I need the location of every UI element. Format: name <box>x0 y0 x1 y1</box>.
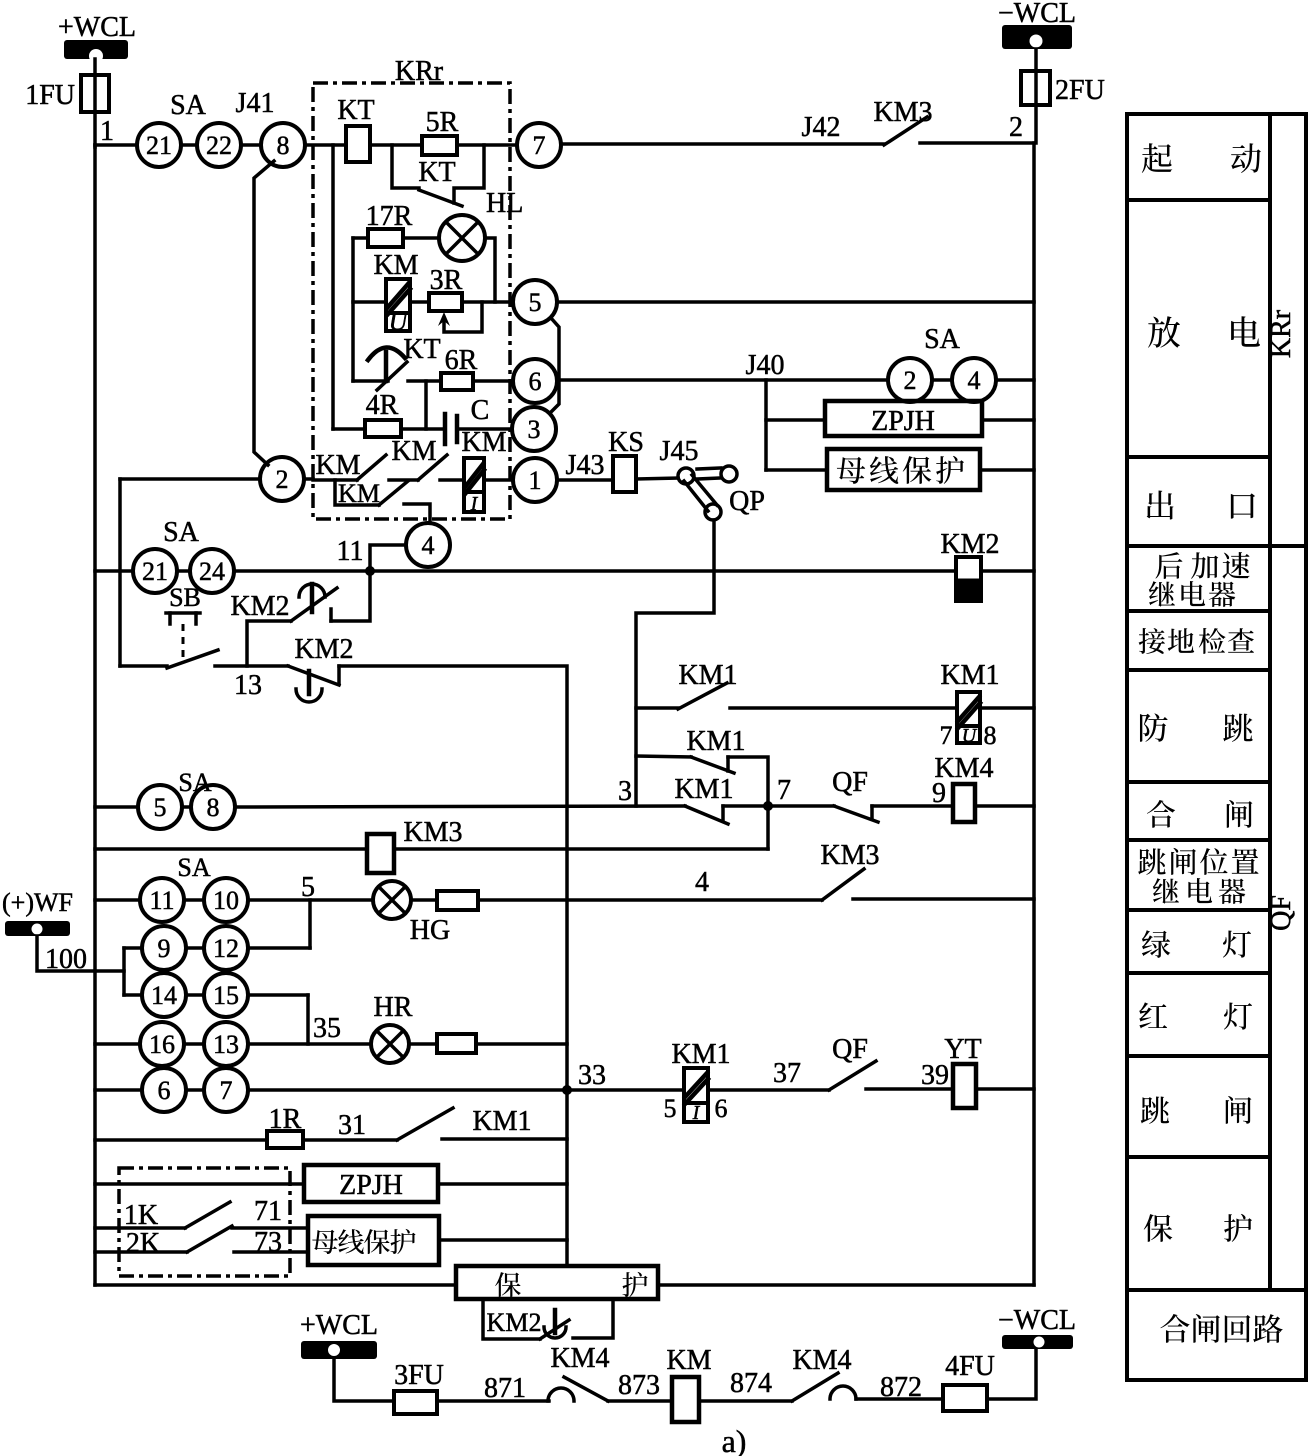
KM1 contact top (NO) <box>636 660 957 709</box>
KM4 contact left (NO) <box>548 1343 672 1401</box>
svg-text:QF: QF <box>832 767 868 798</box>
svg-text:872: 872 <box>880 1372 922 1403</box>
relay coil KM1 (U) pins 7-8 <box>940 660 1000 750</box>
svg-text:U: U <box>389 307 410 336</box>
wire row 5 <box>353 300 386 304</box>
svg-text:6: 6 <box>158 1076 171 1105</box>
svg-text:KM1: KM1 <box>472 1106 531 1137</box>
svg-text:10: 10 <box>213 886 239 915</box>
wire row 4R-C <box>333 427 365 431</box>
svg-text:I: I <box>470 493 479 515</box>
fuse 1FU <box>81 75 109 112</box>
svg-text:2FU: 2FU <box>1055 75 1105 106</box>
terminal circle 1 <box>513 458 557 502</box>
KM2 contact upper (anti-pump, with latch) <box>230 571 370 666</box>
wire rail-2 drop (circle2 to SB row) <box>118 479 122 666</box>
fuse 4FU <box>943 1385 987 1411</box>
resistor 1R <box>267 1131 303 1148</box>
table frame <box>1127 114 1306 1380</box>
SA contact circle 5 <box>138 785 182 829</box>
terminal circle 7 <box>517 123 561 167</box>
wire circle15 to HR branch <box>248 993 308 997</box>
svg-text:SA: SA <box>924 324 961 355</box>
KM1 contact (NO, protection start) <box>397 1106 567 1140</box>
bus row 11 wire <box>95 569 133 573</box>
wire J40 branch drop <box>764 380 768 470</box>
svg-text:35: 35 <box>313 1013 341 1044</box>
SA contact circle 21 <box>137 123 181 167</box>
wire <box>184 898 204 902</box>
wire <box>184 1042 204 1046</box>
svg-text:KM3: KM3 <box>873 97 932 128</box>
svg-text:11: 11 <box>337 536 364 567</box>
SA contact circle 2 <box>888 358 932 402</box>
relay coil KM1 (I) pins 5-6 <box>664 1039 731 1124</box>
svg-text:KM: KM <box>315 450 360 481</box>
wire to rail <box>980 468 1034 472</box>
bottom boundary wire <box>95 1283 456 1287</box>
resistor (HG row) <box>411 898 437 902</box>
wire to ZPJH <box>766 418 825 422</box>
svg-text:KM1: KM1 <box>940 660 999 691</box>
wire bracket to SA 9/14 <box>122 948 126 995</box>
svg-text:SA: SA <box>163 517 200 548</box>
KM4 contact right (NO) <box>792 1345 943 1401</box>
wire row 6 / J40 row <box>557 378 888 382</box>
resistor (HR row) <box>409 1042 437 1046</box>
resistor 6R <box>441 373 473 390</box>
wire circle8 drop to circle2 <box>254 161 274 465</box>
wire KS to QP <box>636 478 678 479</box>
terminal circle 3 <box>512 407 556 451</box>
svg-text:7: 7 <box>220 1076 233 1105</box>
svg-text:C: C <box>471 395 490 426</box>
SA contact circle 11 <box>140 878 184 922</box>
svg-text:2: 2 <box>276 465 289 494</box>
svg-text:KT: KT <box>403 334 440 365</box>
wire to HR lamp <box>248 1042 371 1046</box>
svg-text:8: 8 <box>277 131 290 160</box>
svg-text:15: 15 <box>213 981 239 1010</box>
svg-text:871: 871 <box>484 1373 526 1404</box>
wire green-lamp row <box>95 898 140 902</box>
svg-text:a): a) <box>722 1423 747 1456</box>
lamp HG (green) <box>373 881 450 946</box>
SA contact circle 6 <box>142 1068 186 1112</box>
svg-text:SB: SB <box>169 583 201 612</box>
inner left rail wire <box>331 145 335 429</box>
svg-text:J45: J45 <box>660 436 699 467</box>
wire +WCL to 1FU <box>93 59 97 147</box>
(+)WF terminal <box>2 888 124 975</box>
svg-text:ZPJH: ZPJH <box>339 1170 403 1201</box>
wire protection box to right rail <box>658 1283 1034 1287</box>
KM1 contact middle (NC) <box>636 726 768 849</box>
SA contact circle 9 <box>142 926 186 970</box>
wire to busbar-protection box <box>766 468 827 472</box>
svg-text:KM: KM <box>461 427 506 458</box>
svg-text:1FU: 1FU <box>25 80 75 111</box>
svg-text:SA: SA <box>170 90 207 121</box>
svg-text:KM: KM <box>373 250 418 281</box>
svg-text:QF: QF <box>832 1034 868 1065</box>
SA contact circle 16 <box>140 1022 184 1066</box>
push button SB <box>120 583 218 668</box>
svg-text:4FU: 4FU <box>945 1351 995 1382</box>
wire to node 33 <box>248 1088 684 1092</box>
svg-text:KT: KT <box>337 95 374 126</box>
SA contact circle 8 <box>191 785 235 829</box>
svg-text:KM3: KM3 <box>403 817 462 848</box>
svg-text:13: 13 <box>234 670 262 701</box>
lamp HR (red) <box>371 992 413 1063</box>
SA contact circle 22 <box>197 123 241 167</box>
1K contact row <box>95 1196 308 1231</box>
svg-text:7: 7 <box>777 775 791 806</box>
svg-text:4R: 4R <box>366 390 399 421</box>
svg-text:KM1: KM1 <box>671 1039 730 1070</box>
svg-text:(+)WF: (+)WF <box>2 888 73 917</box>
svg-text:873: 873 <box>618 1370 660 1401</box>
svg-text:7: 7 <box>940 721 953 750</box>
wire node 871 <box>437 1399 549 1403</box>
svg-text:37: 37 <box>773 1058 801 1089</box>
svg-text:J40: J40 <box>746 350 785 381</box>
resistor 4R <box>365 420 401 437</box>
svg-text:QP: QP <box>729 486 765 517</box>
svg-text:KM1: KM1 <box>674 774 733 805</box>
box ZPJH (upper) <box>825 401 982 436</box>
resistor 17R <box>353 236 368 240</box>
KM2 contact loop below protection box <box>483 1299 613 1339</box>
svg-text:J41: J41 <box>236 88 275 119</box>
svg-text:KM4: KM4 <box>550 1343 609 1374</box>
junction dot node 7 <box>763 801 773 811</box>
wire row 5 to right rail <box>557 300 1034 304</box>
terminal circle 5 <box>513 280 557 324</box>
relay coil KM (U voltage coil) <box>373 250 418 336</box>
svg-text:13: 13 <box>213 1030 239 1059</box>
wire terminal1 to KS <box>557 478 613 482</box>
svg-text:5: 5 <box>529 288 542 317</box>
svg-text:100: 100 <box>45 944 87 975</box>
svg-text:KM: KM <box>666 1345 711 1376</box>
wire SA8 to KM1 bottom contact <box>235 806 685 807</box>
svg-text:5R: 5R <box>426 107 459 138</box>
wire row 6 <box>353 379 388 383</box>
wire ZPJH lower row <box>95 1182 304 1186</box>
svg-text:2: 2 <box>904 366 917 395</box>
svg-text:5: 5 <box>301 872 315 903</box>
-WCL terminal (top) <box>998 0 1076 49</box>
svg-text:6: 6 <box>529 367 542 396</box>
wire <box>241 143 261 147</box>
svg-text:21: 21 <box>142 557 168 586</box>
wire 17R branch rail <box>351 238 355 381</box>
svg-text:874: 874 <box>730 1368 772 1399</box>
svg-text:+WCL: +WCL <box>58 12 136 43</box>
svg-text:J42: J42 <box>802 112 841 143</box>
svg-text:1: 1 <box>529 466 542 495</box>
svg-text:KM: KM <box>391 436 436 467</box>
wire node 37 <box>708 1088 829 1092</box>
wire -WCL to 2FU <box>1034 49 1038 143</box>
+WCL terminal (bottom) <box>300 1310 394 1401</box>
svg-text:2: 2 <box>1009 112 1023 143</box>
wire junction row6 to row C <box>424 381 428 429</box>
resistor 3R <box>429 293 462 311</box>
SA contact circle 4 <box>952 358 996 402</box>
box busbar protection (lower) <box>308 1216 439 1265</box>
KT contact (parallel with 5R) <box>392 145 484 206</box>
SA contact circle 15 <box>204 973 248 1017</box>
wire trip row (6-7) <box>95 1088 142 1092</box>
svg-text:8: 8 <box>984 721 997 750</box>
svg-text:1: 1 <box>100 116 114 147</box>
svg-text:J43: J43 <box>566 450 605 481</box>
wire to right rail <box>996 378 1034 382</box>
wire <box>177 569 190 573</box>
terminal circle 4 (below box) <box>406 523 450 567</box>
wire KM2 lower to mid rail <box>339 666 567 1266</box>
2K contact row <box>95 1226 308 1259</box>
svg-text:HL: HL <box>486 188 523 219</box>
svg-text:3FU: 3FU <box>394 1360 444 1391</box>
svg-text:2K: 2K <box>126 1228 160 1259</box>
svg-text:−WCL: −WCL <box>998 0 1076 29</box>
SA contact circle 13 <box>204 1022 248 1066</box>
left rail wire <box>93 145 97 1285</box>
wire row J42 <box>561 142 884 146</box>
svg-text:KM3: KM3 <box>820 840 879 871</box>
wire circle2 left <box>120 477 260 481</box>
SA contact circle 10 <box>204 878 248 922</box>
wire <box>186 1088 204 1092</box>
svg-text:22: 22 <box>206 131 232 160</box>
svg-text:YT: YT <box>944 1034 981 1065</box>
wire to node 2 <box>920 141 1034 145</box>
resistor 5R <box>422 136 457 155</box>
svg-text:17R: 17R <box>366 201 413 232</box>
wire 4FU to -WCL <box>987 1349 1036 1399</box>
wire KM2 coil to rail <box>981 569 1034 573</box>
wire circle4 to bus <box>370 545 406 571</box>
QF contact (closing row) <box>832 767 953 822</box>
svg-text:21: 21 <box>146 131 172 160</box>
svg-text:6: 6 <box>715 1094 728 1123</box>
wire HL right drop to row 5 <box>485 238 495 302</box>
table row labels <box>1266 309 1297 931</box>
trip coil YT <box>944 1034 981 1108</box>
SA contact circle 21 (bus) <box>133 549 177 593</box>
svg-text:KM2: KM2 <box>294 634 353 665</box>
svg-text:3: 3 <box>618 776 632 807</box>
svg-text:8: 8 <box>207 793 220 822</box>
bus wire to KM2 coil <box>234 569 956 573</box>
svg-text:33: 33 <box>578 1060 606 1091</box>
wire bracket terminal5 to terminal3 <box>550 318 559 413</box>
wire 17R to HL <box>403 236 439 240</box>
box busbar protection (upper) <box>827 449 980 490</box>
svg-text:9: 9 <box>158 934 171 963</box>
wire 1R row <box>95 1138 267 1142</box>
wire red-lamp row <box>95 1042 140 1046</box>
svg-text:KM1: KM1 <box>686 726 745 757</box>
relay coil KM (I current coil) <box>461 427 506 515</box>
timer coil KT <box>346 126 370 162</box>
SA contact circle 12 <box>204 926 248 970</box>
svg-text:KT: KT <box>418 157 455 188</box>
svg-text:SA: SA <box>177 853 210 882</box>
svg-text:HG: HG <box>410 915 450 946</box>
relay coil KM4 (closing) <box>932 753 994 822</box>
lower KM contact (to terminal 4) <box>335 479 430 523</box>
KT time-delay contact (umbrella) <box>368 334 441 390</box>
junction dot bus/terminal4 <box>365 566 375 576</box>
wire circle12 to junction <box>248 946 310 950</box>
svg-text:KS: KS <box>608 427 644 458</box>
3R adjust arrow bracket <box>438 302 482 332</box>
svg-text:4: 4 <box>422 531 435 560</box>
wire circle8 to KT coil and 5R <box>305 143 346 147</box>
svg-text:9: 9 <box>932 778 946 809</box>
fuse 2FU <box>1021 71 1050 105</box>
svg-text:4: 4 <box>695 867 709 898</box>
svg-text:31: 31 <box>338 1110 366 1141</box>
fuse 3FU <box>394 1391 437 1414</box>
svg-text:3: 3 <box>528 415 541 444</box>
relay coil KM2 <box>940 529 999 601</box>
svg-text:3R: 3R <box>430 265 463 296</box>
SA contact circle 7 <box>204 1068 248 1112</box>
relay coil KM3 <box>367 817 463 873</box>
svg-text:ZPJH: ZPJH <box>871 406 935 437</box>
svg-text:14: 14 <box>151 981 177 1010</box>
KM2 contact lower (with latch) <box>215 634 354 702</box>
wire KM3 coil row <box>95 847 367 851</box>
top row wire node1 to SA21 <box>95 143 137 147</box>
relay coil KM (closing contactor) <box>666 1345 711 1422</box>
svg-text:KRr: KRr <box>1266 309 1297 358</box>
wire to HG lamp <box>248 898 373 902</box>
dashed box (external protection contacts) <box>119 1168 290 1276</box>
wire KM3 coil to node7 stub <box>394 847 768 851</box>
relay KS <box>613 456 636 492</box>
svg-text:5: 5 <box>664 1094 677 1123</box>
SA contact circle 24 <box>190 549 234 593</box>
+WCL terminal (top) <box>58 12 136 63</box>
wire node 874 <box>699 1399 792 1403</box>
lamp HL <box>439 188 523 261</box>
svg-text:QF: QF <box>1266 895 1297 931</box>
terminal circle 6 <box>513 359 557 403</box>
svg-text:KM2: KM2 <box>487 1308 542 1337</box>
svg-text:I: I <box>692 1102 701 1124</box>
-WCL terminal (bottom) <box>998 1305 1076 1349</box>
wire circle2 to box <box>304 477 313 481</box>
svg-text:+WCL: +WCL <box>300 1310 378 1341</box>
wire <box>932 378 952 382</box>
svg-text:KM2: KM2 <box>230 591 289 622</box>
svg-text:KM1: KM1 <box>678 660 737 691</box>
svg-text:6R: 6R <box>445 345 478 376</box>
svg-text:7: 7 <box>533 131 546 160</box>
svg-text:71: 71 <box>254 1196 282 1227</box>
svg-text:1R: 1R <box>269 1104 302 1135</box>
SA contact circle 14 <box>142 973 186 1017</box>
junction dot node 33 <box>562 1085 572 1095</box>
KM3 contact (NO, green lamp row) <box>820 840 1034 900</box>
wire <box>186 946 204 950</box>
QF contact (trip row, NO) <box>829 1034 953 1090</box>
svg-text:4: 4 <box>968 366 981 395</box>
wire <box>182 805 191 809</box>
svg-text:73: 73 <box>254 1227 282 1258</box>
SA circle 2 (self-hold) <box>260 457 304 501</box>
wire ZPJH to rail <box>982 418 1034 422</box>
svg-text:24: 24 <box>199 557 225 586</box>
box ZPJH (lower) <box>304 1165 438 1202</box>
svg-text:16: 16 <box>149 1030 175 1059</box>
wire <box>181 143 197 147</box>
capacitor C <box>445 395 489 444</box>
svg-text:11: 11 <box>149 886 174 915</box>
svg-text:HR: HR <box>374 992 413 1023</box>
J41 circle 8 <box>261 123 305 167</box>
svg-text:U: U <box>962 725 978 747</box>
right rail wire <box>1032 143 1036 1285</box>
svg-text:5: 5 <box>154 793 167 822</box>
svg-text:−WCL: −WCL <box>998 1305 1076 1336</box>
disconnect switch QP <box>678 466 765 520</box>
wire row 3 (SA 5-8 row) <box>95 805 138 809</box>
wire <box>186 993 204 997</box>
KM1 contact bottom (NC) <box>674 774 834 824</box>
svg-text:KM4: KM4 <box>792 1345 851 1376</box>
wire drop to circle 12 <box>308 900 312 948</box>
box protection <box>456 1266 658 1299</box>
wire QP down and to KM1 rail <box>636 520 714 806</box>
svg-text:12: 12 <box>213 934 239 963</box>
KRr dashed box <box>313 83 510 519</box>
